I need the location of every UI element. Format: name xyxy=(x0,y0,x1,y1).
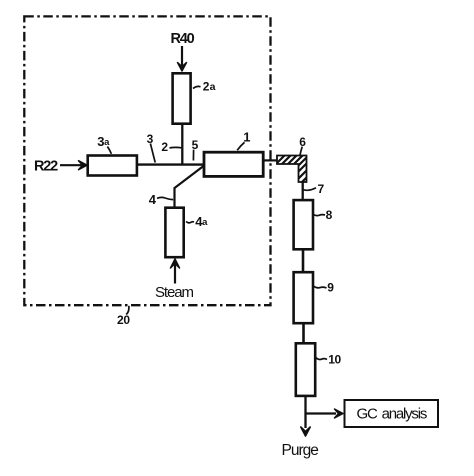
svg-text:4: 4 xyxy=(149,192,157,207)
label 6 xyxy=(299,135,306,149)
svg-text:1: 1 xyxy=(243,130,250,145)
label 2a xyxy=(203,80,216,94)
leader tick for label 3 xyxy=(150,144,155,163)
wire main line from box 3a to box 1 xyxy=(138,163,204,165)
text Purge xyxy=(282,442,319,459)
svg-text:R40: R40 xyxy=(171,31,195,47)
leader tick for label 7 xyxy=(304,188,317,191)
svg-text:2: 2 xyxy=(161,140,168,154)
leader tick for label 2a xyxy=(193,86,201,88)
enclosure dash-dot border 20 xyxy=(24,16,270,305)
wire from box 9 to box 10 xyxy=(302,324,305,342)
leader tick for label 5 xyxy=(192,150,194,161)
wire from restrictor 6 down to box 8 xyxy=(302,182,304,200)
svg-text:8: 8 xyxy=(326,208,333,222)
leader tick for label 2 xyxy=(170,146,182,149)
label 5 xyxy=(192,138,199,152)
box 9 (trap) xyxy=(294,272,313,323)
label 2 xyxy=(161,140,168,154)
leader tick for label 10 xyxy=(316,358,327,360)
box GC analysis xyxy=(345,400,439,427)
arrow purge (down) xyxy=(301,427,310,436)
label R40 xyxy=(171,31,195,47)
svg-text:R22: R22 xyxy=(34,159,58,175)
label 4a xyxy=(195,214,208,229)
restrictor 6 (hatched L-shape) xyxy=(272,152,314,195)
label 7 xyxy=(318,182,325,196)
svg-text:6: 6 xyxy=(299,135,306,149)
wire from box 2a down to main line xyxy=(181,125,183,166)
label 3a xyxy=(97,134,110,149)
box 10 (trap) xyxy=(296,343,315,396)
box 2a (vessel) xyxy=(173,73,191,123)
arrow Steam into box 4a xyxy=(171,259,180,284)
label 4 xyxy=(149,192,157,207)
label 10 xyxy=(328,353,341,367)
leader tick for label 3a xyxy=(107,147,111,154)
wire from box 10 down to purge arrow xyxy=(304,397,306,429)
arrow R40 into box 2a xyxy=(178,46,187,71)
svg-text:7: 7 xyxy=(318,182,325,196)
label R22 xyxy=(34,159,58,175)
label 8 xyxy=(326,208,333,222)
label 20 xyxy=(117,313,130,327)
box 3a (vessel) xyxy=(88,156,137,176)
text Steam xyxy=(155,284,193,301)
label 1 xyxy=(243,130,250,145)
svg-text:GC analysis: GC analysis xyxy=(357,405,427,422)
svg-text:3: 3 xyxy=(147,132,154,146)
leader tick for label 4 xyxy=(157,197,173,199)
box 4a (steam vessel) xyxy=(165,208,183,258)
wire diagonal from box 1 junction to box 4a xyxy=(175,166,204,207)
wire from box 8 to box 9 xyxy=(302,250,305,271)
leader tick for label 6 xyxy=(300,147,302,155)
svg-text:20: 20 xyxy=(117,313,130,327)
leader tick for label 4a xyxy=(186,222,194,223)
label 3 xyxy=(147,132,154,146)
svg-text:Steam: Steam xyxy=(155,284,193,301)
svg-text:9: 9 xyxy=(327,281,334,295)
svg-text:10: 10 xyxy=(328,353,341,367)
arrow R22 into box 3a xyxy=(60,161,87,170)
leader tick for label 1 xyxy=(237,142,244,150)
label 9 xyxy=(327,281,334,295)
text GC analysis xyxy=(357,405,427,422)
svg-text:3a: 3a xyxy=(97,134,110,149)
svg-text:4a: 4a xyxy=(195,214,208,229)
wire branch to GC analysis xyxy=(306,409,344,418)
box 8 (trap) xyxy=(294,200,313,249)
leader tick for label 8 xyxy=(313,214,325,215)
svg-text:Purge: Purge xyxy=(282,442,319,459)
leader tick for label 20 xyxy=(126,306,129,315)
leader tick for label 9 xyxy=(314,286,327,288)
box 1 (reactor) xyxy=(204,152,263,176)
svg-text:5: 5 xyxy=(192,138,199,152)
wire from box 1 to restrictor 6 xyxy=(264,159,278,161)
svg-text:2a: 2a xyxy=(203,80,216,94)
